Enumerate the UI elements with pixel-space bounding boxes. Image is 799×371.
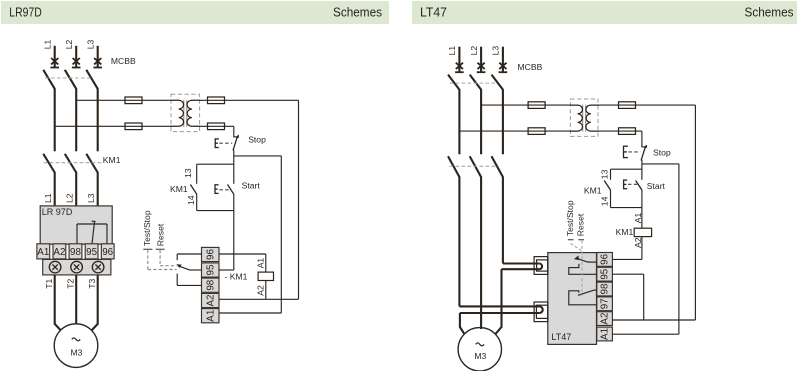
svg-text:A2: A2 <box>255 285 265 296</box>
svg-text:LR 97D: LR 97D <box>42 207 73 217</box>
svg-text:A1: A1 <box>255 258 265 269</box>
svg-text:Schemes: Schemes <box>333 6 382 20</box>
svg-text:A2: A2 <box>53 247 65 258</box>
svg-text:A1: A1 <box>37 247 49 258</box>
svg-text:MCBB: MCBB <box>518 62 543 72</box>
svg-text:97: 97 <box>599 298 610 309</box>
svg-text:KM1: KM1 <box>616 227 634 237</box>
svg-text:LT47: LT47 <box>551 332 571 342</box>
svg-text:Test/Stop: Test/Stop <box>142 210 152 246</box>
svg-text:L1: L1 <box>447 46 457 56</box>
svg-text:T1: T1 <box>44 279 54 289</box>
svg-text:T3: T3 <box>87 279 97 289</box>
svg-text:Start: Start <box>647 181 666 191</box>
svg-text:98: 98 <box>205 279 216 290</box>
svg-text:13: 13 <box>600 169 610 179</box>
svg-text:Reset: Reset <box>575 213 585 236</box>
svg-text:95: 95 <box>86 247 97 258</box>
svg-text:KM1: KM1 <box>584 186 602 196</box>
svg-text:Start: Start <box>242 180 261 190</box>
svg-text:A1: A1 <box>205 310 216 322</box>
svg-text:L3: L3 <box>85 40 95 50</box>
svg-text:L3: L3 <box>86 193 96 203</box>
svg-text:95: 95 <box>599 268 610 279</box>
svg-text:96: 96 <box>102 247 113 258</box>
svg-text:L1: L1 <box>42 40 52 50</box>
svg-text:95: 95 <box>205 264 216 275</box>
svg-text:MCBB: MCBB <box>111 56 136 66</box>
svg-text:A1: A1 <box>633 212 643 223</box>
svg-text:96: 96 <box>599 253 610 264</box>
svg-text:A2: A2 <box>599 313 610 325</box>
svg-text:L3: L3 <box>491 46 501 56</box>
svg-text:98: 98 <box>70 247 81 258</box>
svg-text:Test/Stop: Test/Stop <box>565 200 575 236</box>
svg-text:L2: L2 <box>64 40 74 50</box>
svg-text:Stop: Stop <box>248 134 266 144</box>
svg-text:M3: M3 <box>474 351 486 361</box>
svg-text:KM1: KM1 <box>103 155 121 165</box>
svg-text:LT47: LT47 <box>420 6 447 20</box>
svg-text:T2: T2 <box>65 279 75 289</box>
svg-text:96: 96 <box>205 249 216 260</box>
svg-text:- KM1: - KM1 <box>225 271 248 281</box>
svg-text:A2: A2 <box>205 295 216 307</box>
svg-text:LR97D: LR97D <box>9 6 42 20</box>
svg-text:Reset: Reset <box>156 223 166 246</box>
svg-text:L2: L2 <box>64 193 74 203</box>
svg-text:A1: A1 <box>599 328 610 340</box>
svg-text:A2: A2 <box>633 237 643 248</box>
svg-text:14: 14 <box>186 195 196 205</box>
svg-text:Stop: Stop <box>653 148 671 158</box>
svg-text:14: 14 <box>599 196 609 206</box>
svg-text:98: 98 <box>599 283 610 294</box>
svg-text:L1: L1 <box>43 193 53 203</box>
svg-text:KM1: KM1 <box>170 184 188 194</box>
svg-text:M3: M3 <box>71 347 83 357</box>
svg-text:13: 13 <box>183 168 193 178</box>
svg-text:Schemes: Schemes <box>745 6 794 20</box>
svg-text:L2: L2 <box>469 46 479 56</box>
